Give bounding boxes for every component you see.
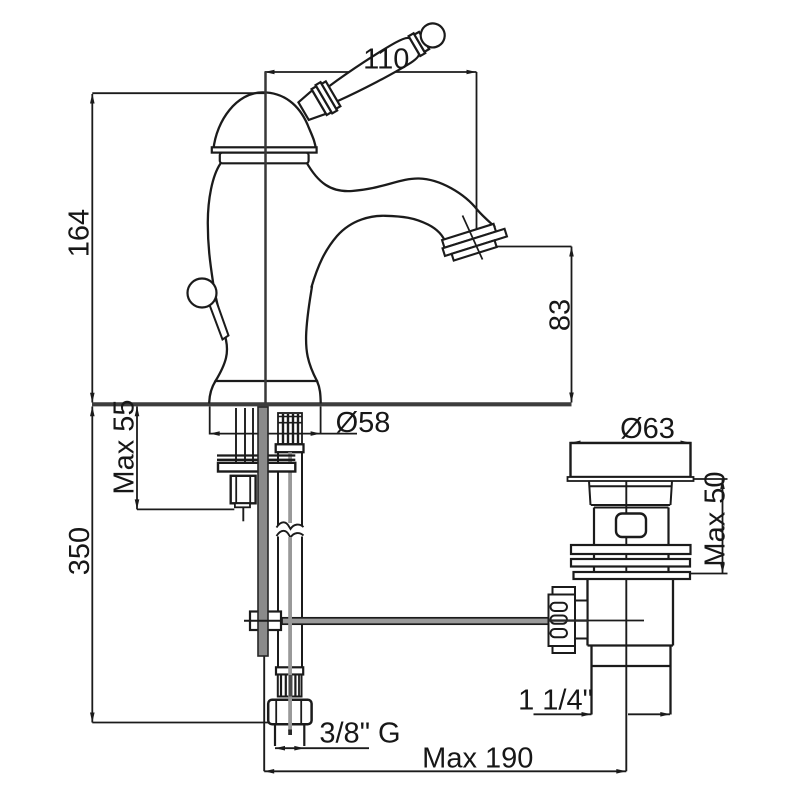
mounting nut facet left	[235, 476, 237, 504]
3/8 nut bottom pipe right wall	[303, 724, 305, 746]
handle neck	[297, 90, 326, 123]
arrow 110 right	[467, 70, 477, 75]
arrow D58 left	[210, 431, 220, 436]
knurl scallop 3	[551, 629, 568, 637]
drain lower body	[588, 579, 674, 646]
supply collar lower	[276, 667, 303, 674]
drain lower ring	[592, 646, 671, 667]
svg-text:83: 83	[545, 299, 577, 331]
handle ferrule ring 2	[414, 32, 429, 52]
supply tube wall right upper	[301, 452, 303, 525]
arrow D63 left	[571, 441, 581, 446]
faucet bell right edge	[317, 381, 321, 403]
supply tailpiece thread block	[278, 413, 302, 444]
drain flange	[571, 443, 691, 477]
drain overflow hole	[616, 514, 646, 538]
mounting nut lower collar	[235, 503, 250, 507]
drain lever rod inside body	[575, 620, 644, 622]
faucet base plinth top line	[216, 380, 318, 382]
arrow Max190 left	[264, 769, 274, 774]
dimension D58 line	[210, 433, 357, 435]
dimension D58 right extension line	[320, 407, 322, 435]
dimension 110 right extension line	[476, 72, 478, 247]
arrow 350 bottom	[90, 713, 95, 723]
dimension 3/8G line	[275, 747, 369, 749]
horseshoe washer top plate line 1	[217, 454, 295, 456]
dimension 350 line	[91, 407, 93, 723]
arrow 3/8 left	[275, 746, 285, 751]
svg-text:Ø58: Ø58	[336, 407, 391, 439]
dimension Max190 line	[264, 770, 626, 772]
supply tailpiece washer	[276, 444, 304, 452]
knurled nut connector	[575, 601, 588, 639]
pop-up rod clamp	[250, 612, 281, 631]
3/8 nut	[268, 700, 311, 724]
knurl scallop 1	[551, 603, 568, 611]
handle ball finial	[416, 19, 449, 52]
knurled nut body	[549, 587, 576, 653]
dimension 110 line	[265, 71, 477, 73]
D58 dim line over thread block	[278, 433, 302, 435]
arrow Max55 bottom	[135, 499, 140, 509]
mounting nut stem	[242, 507, 244, 521]
dimension Max50 bottom extension line	[691, 573, 728, 575]
lower thread center stripe over rod	[289, 675, 293, 697]
arrow 164 bottom	[90, 393, 95, 403]
dimension Max50 top extension line	[693, 478, 728, 480]
lever rod line through knurled nut	[549, 619, 589, 621]
horizontal lever rod body	[282, 618, 551, 624]
side lever knob	[188, 279, 217, 308]
arrow 350 top	[90, 406, 95, 416]
svg-text:Max 190: Max 190	[422, 743, 533, 775]
pop-up rod below deck	[258, 407, 268, 656]
aerator band 3	[452, 240, 497, 260]
horseshoe washer top plate line 2	[217, 459, 295, 461]
drain fin 3	[574, 572, 691, 579]
handle grip	[327, 35, 421, 105]
3/8 nut bottom pipe left wall	[274, 724, 276, 746]
supply tube wall right lower	[301, 537, 303, 668]
drain centerline	[625, 458, 627, 772]
handle group	[295, 15, 451, 125]
mounting stud line right	[252, 408, 254, 463]
drain tailpipe	[592, 666, 671, 715]
svg-text:164: 164	[64, 209, 96, 257]
handle collar ring 2	[316, 82, 338, 113]
mounting stud line left	[235, 408, 237, 463]
horseshoe washer body	[218, 463, 295, 472]
spout lower outline	[312, 216, 447, 287]
lower thread section	[278, 675, 302, 697]
countertop deck line	[92, 402, 572, 406]
pipe break symbol upper curve	[277, 522, 304, 529]
svg-text:Max 50: Max 50	[700, 471, 732, 566]
supply tube wall left upper	[277, 452, 279, 525]
mounting nut body	[231, 476, 256, 504]
dimension 83 top extension line	[477, 246, 572, 248]
handle collar ring 1	[312, 86, 332, 115]
arrow 83 bottom	[569, 393, 574, 403]
svg-text:1 1/4": 1 1/4"	[518, 685, 593, 717]
dome collar band lower	[220, 153, 309, 164]
svg-text:110: 110	[363, 44, 409, 76]
supply tube inner rod tip	[288, 730, 292, 736]
side lever knob stem	[209, 298, 229, 340]
drain flange lip	[568, 477, 694, 481]
horizontal lever rod thin left part	[244, 620, 285, 622]
3/8 nut facet right	[300, 700, 302, 724]
knurl scallop 2	[551, 616, 568, 624]
dimension Max50 line	[722, 479, 724, 574]
svg-text:Ø63: Ø63	[620, 413, 675, 445]
spout upper outline	[306, 162, 495, 227]
supply tube wall left lower	[277, 537, 279, 668]
arrow 3/8 right	[294, 746, 304, 751]
arrow 83 top	[569, 247, 574, 257]
dimension 164 top extension line	[92, 92, 266, 94]
supply tube inner rod lower	[288, 537, 292, 731]
aerator band 1	[442, 224, 496, 248]
faucet body right lower outline	[306, 287, 317, 382]
dimension Max55 line	[136, 407, 138, 510]
faucet bell left edge	[209, 381, 215, 403]
arrow Max50 bottom	[720, 564, 725, 574]
dimension D58 left extension line	[209, 407, 211, 435]
dimension 1 1/4 line	[534, 713, 592, 715]
arrow Max190 right	[616, 769, 626, 774]
dimension 350 bottom extension line	[92, 722, 290, 724]
dimension 164 line	[91, 94, 93, 403]
mounting stud line middle	[244, 408, 246, 463]
dimension 1 1/4 inner tick line	[628, 713, 670, 715]
drain fin 2	[571, 559, 690, 567]
arrow 1 1/4 left	[582, 712, 592, 717]
aerator group	[440, 221, 509, 262]
dimension 83 line	[571, 247, 573, 403]
arrow 110 left	[265, 70, 275, 75]
arrow 1 1/4 right	[660, 712, 670, 717]
arrow Max50 top	[720, 479, 725, 489]
drain fin 1	[571, 545, 691, 554]
aerator band 2	[443, 229, 507, 256]
aerator slash tick	[463, 216, 483, 260]
faucet body left outline	[208, 164, 227, 382]
drain body sides behind fins	[594, 508, 669, 580]
drain neck	[589, 481, 672, 508]
arrow D63 right	[681, 441, 691, 446]
svg-text:Max 55: Max 55	[109, 399, 141, 494]
handle ferrule ring 1	[409, 33, 426, 56]
mounting nut facet right	[249, 476, 251, 504]
supply tube inner rod upper	[288, 452, 292, 523]
faucet centerline above deck	[264, 72, 267, 403]
svg-text:3/8" G: 3/8" G	[319, 718, 400, 750]
3/8 nut facet left	[275, 700, 277, 724]
arrow D58 right	[311, 431, 321, 436]
handle collar ring 3	[322, 81, 341, 108]
svg-text:350: 350	[64, 527, 96, 575]
dimension Max190 left extension line	[263, 656, 265, 771]
dome collar band upper	[212, 147, 317, 152]
dome	[213, 92, 315, 149]
dimension Max55 bottom extension line	[137, 508, 234, 510]
pipe break symbol lower curve	[277, 531, 304, 538]
arrow Max55 top	[135, 406, 140, 416]
arrow 164 top	[90, 94, 95, 104]
dimension D63 line	[571, 442, 691, 444]
